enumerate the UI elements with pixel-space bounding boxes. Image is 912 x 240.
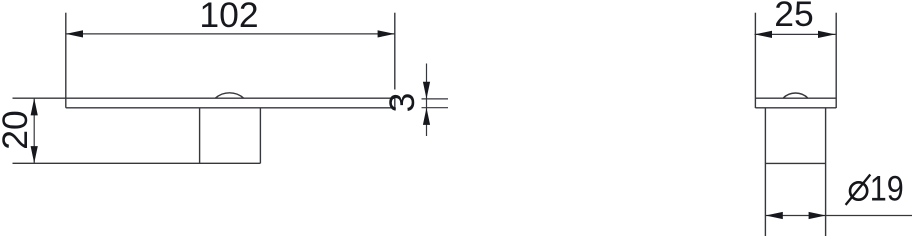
right view: right side edge + extension line of dim 25 (right) (835, 13, 837, 108)
bar bottom edge (side view) (66, 107, 395, 109)
arrowhead dia19 right (809, 212, 826, 219)
dimension text 25 (774, 0, 814, 34)
post block bottom edge + bottom extension line of dim 20 (13, 162, 261, 164)
dimension line 102 (66, 33, 395, 35)
arrowhead dim 25 left (755, 31, 772, 38)
right view: dome bump (end view) (783, 93, 808, 98)
dimension text dia 19: diameter symbol (846, 175, 871, 205)
arrowhead dim 102 left (66, 30, 83, 37)
dimension line 3 (vertical, right of bar) (426, 64, 428, 137)
svg-text:3: 3 (382, 93, 422, 113)
extension line bottom of dim 3 (422, 107, 449, 109)
dome bump on bar (side view) (215, 93, 243, 98)
arrowhead dim 25 right (818, 31, 835, 38)
arrowhead dim 20 top (31, 98, 38, 115)
dimension line 20 (33, 98, 35, 163)
right view: cylinder joint line (765, 162, 825, 164)
arrowhead dim 3 bottom (pointing up) (423, 108, 430, 125)
right view: left side edge + extension line of dim 25 (left) (755, 13, 836, 236)
dimension text 3 (rotated) (382, 93, 422, 113)
svg-text:20: 20 (0, 110, 35, 150)
right view: plate top edge (755, 97, 836, 99)
post block below bar: left edge (side view) (199, 108, 201, 163)
dimension text 102 (199, 0, 258, 35)
post block right edge (side view) (259, 108, 261, 163)
extension line of dim 102 (right) (394, 13, 396, 90)
dimension line 25 (755, 33, 836, 35)
dimension line and leader of dia 19 (766, 215, 912, 217)
arrowhead dim 102 right (378, 30, 395, 37)
arrowhead dim 20 bottom (31, 146, 38, 163)
right view: plate bottom edge (755, 107, 836, 109)
bar left end edge + extension line of dim 102 (left) (65, 13, 67, 108)
arrowhead dim 3 top (pointing down) (423, 82, 430, 99)
svg-text:19: 19 (870, 169, 904, 209)
arrowhead dia19 left (766, 212, 783, 219)
dimension text dia 19: value 19 (870, 169, 904, 209)
bar right end edge (394, 98, 396, 108)
svg-text:25: 25 (774, 0, 814, 34)
right view: cylinder left edge (764, 108, 766, 236)
right view: cylinder right edge (825, 108, 827, 236)
dimension text 20 (rotated) (0, 110, 35, 150)
bar top edge (side view) with left extension line of dim 20 (13, 97, 395, 99)
svg-text:102: 102 (199, 0, 258, 35)
extension line top of dim 3 (422, 98, 449, 100)
